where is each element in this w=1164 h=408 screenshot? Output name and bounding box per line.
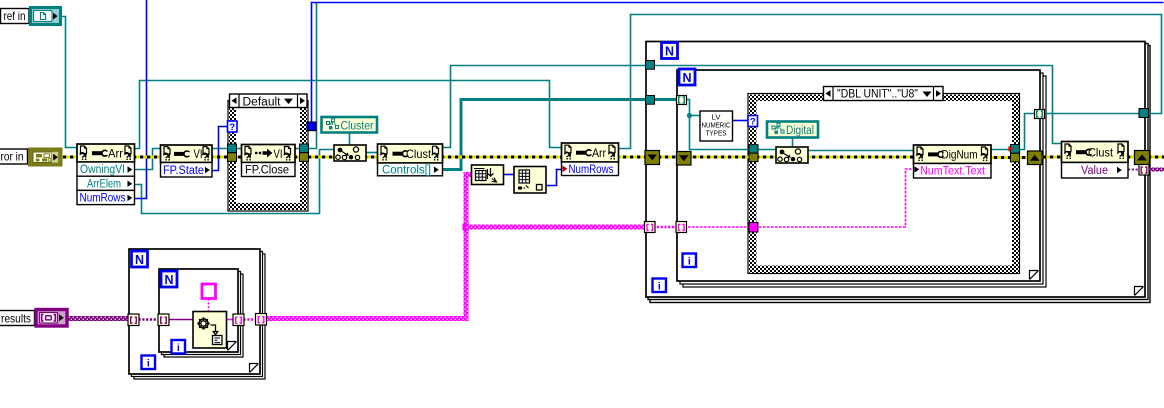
svg-text:VI: VI (194, 147, 203, 161)
bottom-left outer for loop main frame (129, 249, 260, 374)
results label (0, 311, 35, 326)
svg-text:Clust: Clust (406, 147, 432, 161)
svg-text:ref in: ref in (4, 9, 26, 23)
wire: Value output to outer loop right tunnel (purple dotted) (1128, 169, 1140, 171)
case1 right olive tunnel (300, 153, 309, 162)
bottom-left inner for loop shadow frames (164, 274, 243, 357)
wire: error invoke node through case1 right tunnel to cast1 (295, 156, 340, 159)
wire: cast2 to DigNum property node (teal) (808, 150, 914, 152)
property node Arr (write NumRows) (562, 143, 619, 176)
svg-text:Arr: Arr (108, 147, 123, 161)
wire: Cluster class constant stem (teal) (349, 133, 351, 147)
junction dot on pink wire (463, 224, 470, 231)
inner for loop shadow frames (683, 76, 1046, 287)
svg-text:VI: VI (274, 147, 283, 161)
Index Array node (514, 167, 546, 194)
wire: Index Array to NumRows write input (blue) (546, 170, 562, 186)
case1 left olive tunnel (228, 153, 237, 162)
svg-text:FP.State: FP.State (163, 165, 204, 177)
svg-text:NumText.Text: NumText.Text (920, 166, 986, 178)
class specifier constant Cluster (322, 117, 378, 133)
inner loop left pink indexing tunnel (676, 222, 687, 233)
outer for loop (big, right) main frame (646, 42, 1145, 298)
wire: case1 right teal tunnel going up off-screen (307, 3, 317, 149)
svg-text:Controls[]: Controls[] (382, 164, 431, 176)
inner loop right shift register (up arrow) (1028, 151, 1043, 165)
Array Size node (472, 165, 504, 185)
wire: cast node to Clust property node (teal) (366, 152, 378, 154)
BL inner loop i terminal (172, 340, 186, 354)
case1 right teal tunnel (300, 144, 309, 153)
wire: error Clust Value to outer right shift register (1128, 156, 1136, 159)
BL outer loop right pink indexing tunnel (256, 314, 267, 326)
wire: error case2 tunnel to DigNum through cast2 (756, 156, 914, 159)
wire: ref in terminal to Arr property node ref input (teal) (61, 17, 78, 148)
property node Clust (Controls[]) (378, 144, 443, 176)
wire: purple element into flatten node (169, 319, 194, 321)
wire: error inner right SR to Clust Value node (1041, 156, 1062, 159)
wire: LV NUMERIC TYPES to case2 selector ? (blue) (733, 120, 749, 122)
cast node (to more specific class) 2 (776, 147, 808, 163)
BL outer loop left purple indexing tunnel (128, 314, 139, 326)
error in label (clipped at window edge) (0, 149, 28, 164)
wire: Arr ref-out up over to Arr(write) node ref input (teal) (135, 81, 562, 149)
wire: error Arr to VI node (135, 156, 162, 159)
outer loop right shift register (up arrow) (1135, 151, 1150, 165)
svg-text:"DBL UNIT".."U8": "DBL UNIT".."U8" (837, 89, 918, 101)
wire: FP.State output to case1 selector ? (blue) (212, 127, 228, 171)
flatten to XML node (193, 312, 227, 349)
svg-text:Value: Value (1081, 165, 1108, 177)
svg-text:NumRows: NumRows (569, 164, 614, 176)
wire: invoke node ref-out to case1 right tunnel (teal) (295, 148, 307, 150)
wire: VI node ref-out into case1 left tunnel (teal) (212, 148, 232, 150)
wire: case1 right blue tunnel up and across the top (blue) (312, 3, 1164, 123)
inner loop right teal indexing tunnel (1035, 110, 1045, 119)
svg-text:results: results (1, 311, 31, 325)
svg-text:Cluster: Cluster (341, 121, 374, 133)
wire: inner loop right tunnel to outer loop right tunnel (teal) (1042, 113, 1142, 115)
LV NUMERIC TYPES constant (700, 111, 733, 141)
wire: Arr(write) ref-out looping around top to right tunnel (teal) (619, 15, 1162, 149)
svg-text:i: i (177, 342, 180, 354)
wire: loop tunnel2 into inner loop indexing tunnel (thick teal) (652, 98, 680, 101)
wire: indexed element ref to LV NUMERIC TYPES and case2 left tunnel (teal) (685, 100, 752, 150)
wire: pink 2D array into big loop tunnel (466, 225, 648, 230)
bottom-left outer for loop shadow frames (134, 254, 265, 379)
svg-text:NUMERIC: NUMERIC (702, 123, 731, 130)
svg-text:i: i (658, 281, 661, 293)
outer loop right teal tunnel (1139, 109, 1149, 118)
svg-text:i: i (688, 256, 691, 268)
wire: NumRows output up off-screen (blue) (135, 0, 147, 199)
outer for loop (big, right) shadow frames (650, 46, 1150, 303)
inner loop left teal indexing tunnel (677, 96, 687, 105)
BL inner loop left purple indexing tunnel (158, 314, 169, 326)
case2 selector terminal ? (748, 116, 758, 128)
svg-text:?: ? (229, 122, 235, 133)
wire: error in terminal to Arr node (61, 156, 79, 159)
svg-text:ror in: ror in (1, 150, 24, 164)
case2 left olive tunnel (749, 153, 758, 162)
svg-text:N: N (164, 273, 173, 287)
wire: pink 1D array between big loop tunnels (653, 226, 679, 228)
wire: error Clust to Arr(write) node (443, 156, 563, 159)
case2 right olive tunnel (1011, 153, 1020, 162)
svg-text:N: N (665, 45, 674, 59)
junction dot on element ref wire (687, 113, 692, 118)
property node Clust (Value) (1062, 142, 1129, 179)
wire: error between loop shift registers (658, 156, 680, 159)
wire: 1D purple array between bottom-left loop tunnels (139, 318, 160, 320)
case structure 1 (Default case) body (228, 101, 308, 212)
outer loop left teal tunnel 1 (646, 61, 655, 70)
svg-text:Digital: Digital (786, 125, 814, 137)
outer loop right purple indexing tunnel (1139, 165, 1149, 176)
svg-text:i: i (147, 358, 150, 370)
wire: ArrElem output routed under case1 to cast node (teal) (135, 150, 335, 214)
inner loop i terminal (683, 254, 697, 268)
invoke node VI (FP.Close) (242, 145, 296, 177)
outer loop N count terminal (662, 43, 678, 59)
class specifier constant Digital (767, 122, 818, 138)
BL inner loop right pink indexing tunnel (233, 314, 244, 326)
bottom-left outer loop fold corner (250, 364, 259, 373)
svg-text:Arr: Arr (592, 146, 606, 160)
case1 left teal tunnel (228, 144, 237, 153)
wire: OwningVI output to VI property node (teal) (135, 149, 161, 170)
wire: case2 right tunnel up to inner loop right indexing tunnel (teal) (1017, 114, 1037, 150)
property node VI (FP.State) (161, 145, 213, 177)
case1 right blue tunnel (307, 122, 316, 131)
svg-text:ArrElem: ArrElem (87, 178, 121, 190)
empty string constant (magenta square) (202, 284, 216, 299)
wire: error Arr(write) to outer loop shift register (619, 156, 649, 159)
wire: Clust ref-out up and to big loop left tunnel (teal) (443, 66, 649, 148)
svg-text:DigNum: DigNum (942, 148, 978, 162)
svg-text:?: ? (750, 117, 756, 128)
outer loop i terminal (653, 279, 667, 293)
svg-text:LV: LV (712, 115, 721, 122)
inner loop left shift register (error, down arrow) (677, 152, 692, 166)
ref in terminal (31, 8, 61, 25)
case2 left teal tunnel (749, 145, 758, 154)
wire: error out to right edge (1148, 156, 1164, 159)
cast node (to more specific class) 1 (334, 145, 366, 161)
wire: Controls[] array to big loop second tunnel (thick teal) (443, 100, 649, 170)
case2 left pink tunnel (749, 223, 758, 233)
wire: Value 1D array out to right edge (purple hatched) (1147, 168, 1164, 172)
wire: pink string inside case2 up to NumText.Text input (755, 169, 914, 227)
case structure 2 selector label (824, 87, 944, 101)
wire: case2 left tunnel to cast2 (teal) (756, 149, 776, 151)
BL outer loop i terminal (142, 356, 156, 370)
inner for loop fold corner (1030, 271, 1039, 280)
wire: results 2D array to bottom-left outer loop (thick purple hatched) (67, 316, 129, 321)
wire: Array Size to Index Array (blue) (504, 174, 515, 176)
wire: pink string element to case2 pink tunnel (684, 226, 752, 228)
wire: pink string from flatten node to inner right tunnel (227, 319, 234, 321)
wire: case1 interior teal to invoke node (233, 148, 242, 150)
inner for loop main frame (677, 70, 1040, 281)
error in terminal (30, 149, 62, 165)
wire: error cast1 to Clust node (360, 156, 378, 159)
outer loop left pink indexing tunnel (645, 222, 656, 233)
wire: error DigNum to case2 right tunnel (991, 156, 1013, 159)
BL outer loop N terminal (132, 251, 148, 267)
svg-text:N: N (682, 71, 691, 85)
svg-text:NumRows: NumRows (80, 193, 126, 205)
svg-text:TYPES: TYPES (706, 131, 727, 138)
wire: 1D pink string array between right tunnels (244, 318, 257, 320)
outer loop left teal tunnel 2 (646, 96, 655, 105)
wire: string constant stem (pink dotted) (208, 299, 210, 312)
svg-text:OwningVI: OwningVI (80, 164, 125, 176)
outer for loop fold corner (1135, 287, 1144, 296)
svg-text:Default: Default (243, 96, 282, 108)
inner loop N count terminal (679, 69, 695, 85)
case structure 1 selector label (230, 94, 308, 108)
ref in label (1, 9, 30, 24)
property node DigNum (NumText.Text) (914, 145, 992, 178)
wire: Digital constant stem (teal) (792, 138, 794, 149)
wire: loop tunnel1 across big loop to Clust(Value) node (teal) (652, 66, 1062, 144)
wire: 2D pink string array to Array Size, up the left of big loop (thick pink hatched) (266, 175, 472, 319)
bottom-left inner for loop main frame (159, 269, 238, 352)
BL inner loop N terminal (161, 271, 177, 287)
svg-text:N: N (135, 253, 144, 267)
case2 right teal tunnel with red direction arrow (1009, 145, 1020, 154)
svg-text:Clust: Clust (1088, 146, 1114, 160)
property node Arr (read: OwningVI, ArrElem, NumRows) (77, 144, 135, 205)
case1 selector terminal ? (228, 121, 238, 133)
wire: error inner shift register to case2 left tunnel (691, 156, 752, 159)
wire: error case2 right tunnel to inner right shift register (1017, 156, 1029, 159)
results terminal (36, 310, 67, 327)
bottom-left inner loop fold corner (228, 342, 237, 351)
wire: error VI node through case1 left tunnel to invoke node (212, 156, 242, 159)
case structure 2 (DBL UNIT case) body (748, 94, 1020, 274)
svg-text:FP.Close: FP.Close (245, 165, 289, 177)
outer loop left shift register (error, down arrow) (645, 151, 660, 165)
wire: DigNum ref-out to case2 right tunnel (teal) (991, 149, 1012, 151)
